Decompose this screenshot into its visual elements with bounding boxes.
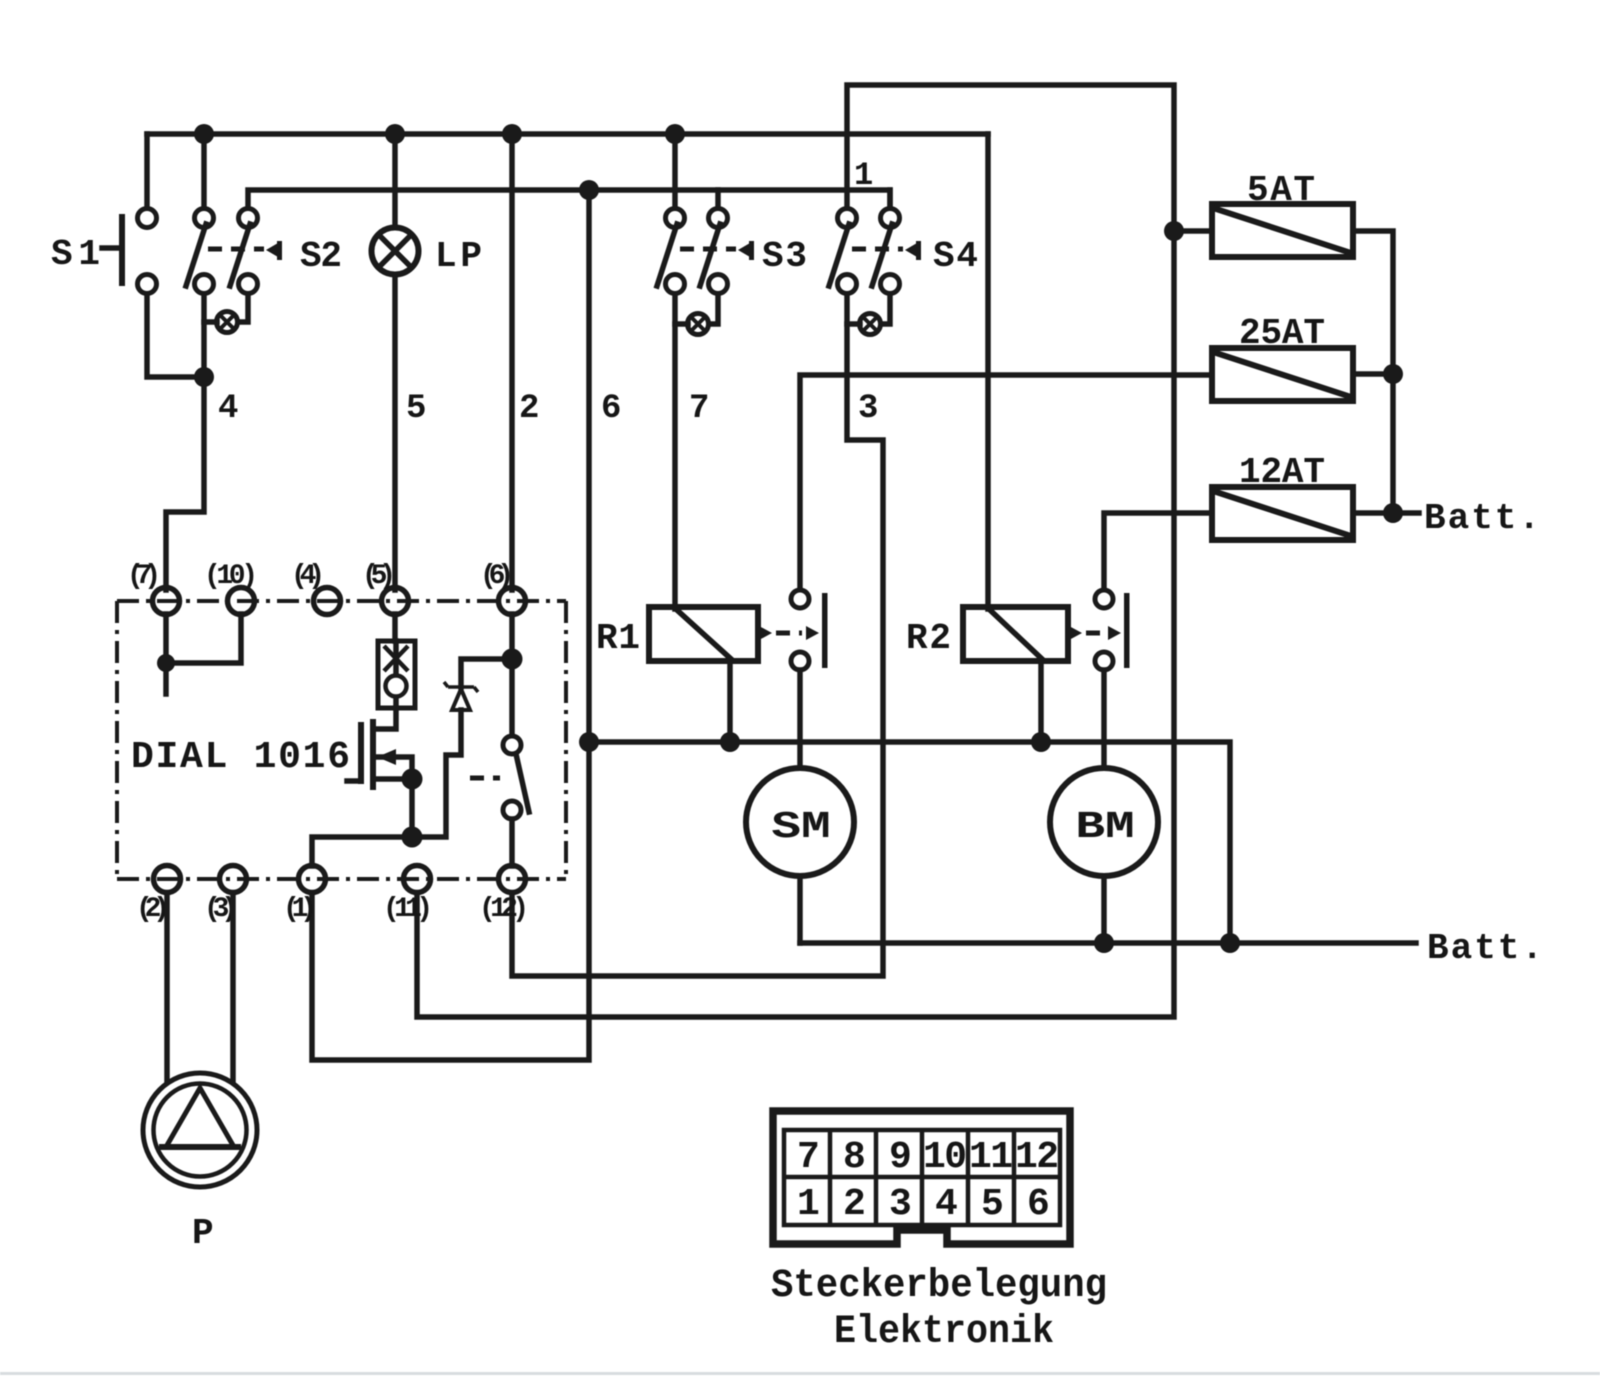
svg-text:12: 12 xyxy=(1015,1136,1059,1179)
switch S3 xyxy=(657,209,754,294)
svg-text:R1: R1 xyxy=(596,618,640,659)
svg-text:5AT: 5AT xyxy=(1247,170,1315,211)
svg-text:S3: S3 xyxy=(762,236,807,277)
fuse 25AT xyxy=(1212,348,1353,401)
junction top rail / S3 left xyxy=(665,124,685,144)
svg-text:5: 5 xyxy=(406,390,426,428)
fuse 5AT xyxy=(1212,204,1353,257)
wire 1 (S4 left top, over top box to fuse bus) xyxy=(417,85,1174,1017)
rail 4 (common return) xyxy=(583,742,1230,943)
wire R2 coil bottom to rail 4 xyxy=(1038,661,1044,742)
junction 25AT / fuse bus xyxy=(1383,364,1403,384)
relay R2 contact xyxy=(1069,590,1130,670)
svg-text:11: 11 xyxy=(969,1136,1013,1179)
wire Q1 source down to node C xyxy=(409,779,415,837)
pin (1) xyxy=(299,866,326,893)
junction top rail / lamp LP xyxy=(385,124,405,144)
svg-text:SM: SM xyxy=(771,806,830,849)
pin (6) xyxy=(499,588,526,615)
rail 3 (R1 contact feed to fuse 25AT) xyxy=(800,375,1212,590)
svg-text:4: 4 xyxy=(218,390,238,428)
wire pin10 internal to node B xyxy=(166,614,241,663)
svg-text:S4: S4 xyxy=(933,236,978,277)
junction Batt. feed xyxy=(1383,503,1403,523)
svg-text:3: 3 xyxy=(889,1183,912,1226)
pin (12) xyxy=(499,866,526,893)
wire S2 left pole top lead xyxy=(201,134,207,209)
wire S1 top lead xyxy=(144,134,150,209)
svg-text:(5): (5) xyxy=(362,561,396,592)
wire pin (2) to pump xyxy=(164,893,170,1084)
junction node B (pin7/pin10) xyxy=(157,654,175,672)
wire S2 right bottom to lamp socket xyxy=(238,294,248,322)
junction node C xyxy=(402,827,423,848)
svg-text:P: P xyxy=(192,1213,214,1254)
pin (7) xyxy=(153,588,180,615)
rail 5 Batt bottom xyxy=(800,940,1416,946)
wire fuse 25AT right lead xyxy=(1353,371,1393,377)
junction wire1 / 5AT xyxy=(1164,221,1184,241)
wire S1 bottom to node A xyxy=(147,294,204,377)
svg-text:5: 5 xyxy=(981,1183,1004,1226)
lamp socket symbol under S4 xyxy=(847,314,881,335)
junction BM / Batt rail xyxy=(1094,933,1114,953)
pushbutton S1 xyxy=(102,209,157,294)
scan artifact line xyxy=(0,1372,1600,1375)
wire main top rail (node K1) xyxy=(147,131,988,137)
wire internal switch to pin (12) xyxy=(509,819,515,866)
connector pin grid xyxy=(784,1130,1060,1225)
svg-text:Batt.: Batt. xyxy=(1424,498,1540,539)
wire S3 right bottom to lamp socket xyxy=(709,294,718,324)
svg-text:(1): (1) xyxy=(283,894,317,925)
junction R1 coil / rail 4 xyxy=(720,732,740,752)
junction rail4 drop / Batt rail xyxy=(1220,933,1240,953)
DIAL 1016 module outline (dash-dot box) xyxy=(117,601,566,879)
thermal element F1 xyxy=(378,641,415,708)
pin (4) xyxy=(314,588,341,615)
relay R2 coil xyxy=(963,607,1068,661)
wire LP top lead xyxy=(392,134,398,228)
pin (3) xyxy=(220,866,247,893)
svg-text:6: 6 xyxy=(1027,1183,1050,1226)
wire thermal element to MOSFET drain xyxy=(377,708,396,729)
wire R2 coil feed (top rail corner down) xyxy=(985,134,991,609)
wire S3 right pole top lead xyxy=(715,190,721,209)
pin (2) xyxy=(154,866,181,893)
svg-text:BM: BM xyxy=(1075,806,1134,849)
svg-text:8: 8 xyxy=(843,1136,866,1179)
lamp LP xyxy=(372,228,419,275)
junction top rail / S2 left xyxy=(194,124,214,144)
transistor Q1 (MOSFET) xyxy=(347,719,412,790)
svg-text:Steckerbelegung: Steckerbelegung xyxy=(771,1264,1107,1309)
svg-text:2: 2 xyxy=(519,390,539,428)
relay R1 coil xyxy=(649,607,758,661)
fuse 12AT xyxy=(1212,487,1353,540)
pin (11) xyxy=(404,866,431,893)
wire fuse 5AT left lead xyxy=(1174,228,1212,234)
svg-text:6: 6 xyxy=(601,390,621,428)
svg-text:1: 1 xyxy=(797,1183,820,1226)
wire pin7 internal stub xyxy=(163,614,169,694)
wire R1 coil bottom to rail 4 xyxy=(727,661,733,742)
wire S3 left pole top lead xyxy=(672,134,678,209)
svg-text:(12): (12) xyxy=(479,894,529,925)
wire pin5 to thermal element xyxy=(392,614,398,641)
wire BM bottom to Batt rail xyxy=(1101,876,1107,943)
junction R2 coil / rail 4 xyxy=(1031,732,1051,752)
svg-text:(4): (4) xyxy=(291,561,325,592)
wire rail 2 / S2 right pole top lead xyxy=(248,190,890,209)
relay R1 contact xyxy=(759,590,828,670)
svg-text:3: 3 xyxy=(858,390,878,428)
lamp socket symbol under S3 xyxy=(675,314,709,335)
wire S4 right pole top lead xyxy=(887,190,893,209)
svg-text:4: 4 xyxy=(935,1183,958,1226)
junction rail2 / wire 6 xyxy=(579,180,599,200)
wire fuse 12AT left lead to relay R2 contact xyxy=(1104,513,1212,590)
internal switch K xyxy=(470,736,529,819)
junction node D (pin6 branch) xyxy=(502,649,523,670)
wire fuse 12AT right lead xyxy=(1353,510,1393,516)
wire 6 (rail2 down, to pin (1) via bottom run) xyxy=(312,190,589,1060)
svg-text:1: 1 xyxy=(854,157,873,194)
wire 2 (top rail to pin (6)) xyxy=(509,134,515,590)
junction Q1 source node xyxy=(402,769,423,790)
wire S2 left bottom (wire 4 upper) xyxy=(201,294,207,377)
svg-text:Elektronik: Elektronik xyxy=(834,1310,1054,1355)
junction top rail / wire 2 xyxy=(502,124,522,144)
svg-text:(11): (11) xyxy=(383,894,433,925)
wire 3 (S4 left bottom, to pin (12) via bottom run) xyxy=(512,294,883,976)
wire 4 lower run to pin (7) xyxy=(166,377,204,590)
motor SM xyxy=(746,768,854,876)
motor BM xyxy=(1050,768,1158,876)
svg-text:7: 7 xyxy=(689,390,709,428)
svg-text:2: 2 xyxy=(843,1183,866,1226)
wire node C to pin (1) xyxy=(312,837,412,866)
junction node A (S1/wire4) xyxy=(194,367,214,387)
svg-text:S2: S2 xyxy=(300,236,342,277)
wire diode top to node D xyxy=(461,659,512,687)
wire Batt. stub xyxy=(1393,510,1419,516)
pin (5) xyxy=(382,588,409,615)
wire fuse bus right (5AT to Batt node) xyxy=(1353,231,1393,513)
pump P xyxy=(143,1073,257,1187)
switch S4 xyxy=(829,209,921,294)
wire S4 right bottom to lamp socket xyxy=(881,294,890,324)
pin (10) xyxy=(228,588,255,615)
svg-text:DIAL 1016: DIAL 1016 xyxy=(131,736,350,779)
svg-text:Batt.: Batt. xyxy=(1427,928,1543,969)
wire node C to diode branch xyxy=(412,710,461,837)
wire pin6 down to internal switch xyxy=(509,614,515,736)
wire R2 contact to motor BM xyxy=(1101,670,1107,769)
wire 7 (S3 left bottom to relay R1 coil) xyxy=(672,294,678,609)
connector housing (Steckerbelegung) xyxy=(773,1111,1070,1244)
lamp socket symbol under S2 xyxy=(204,312,238,333)
svg-text:9: 9 xyxy=(889,1136,912,1179)
svg-text:7: 7 xyxy=(797,1136,820,1179)
svg-text:12AT: 12AT xyxy=(1239,452,1325,493)
wire SM bottom to Batt rail xyxy=(797,876,803,943)
junction wire6 / rail 4 xyxy=(579,732,599,752)
svg-text:10: 10 xyxy=(923,1136,967,1179)
svg-text:(6): (6) xyxy=(480,561,514,592)
diode D1 (zener) xyxy=(444,682,478,710)
svg-text:(10): (10) xyxy=(204,561,258,592)
wire R1 contact to motor SM xyxy=(797,670,803,769)
svg-text:25AT: 25AT xyxy=(1239,313,1325,354)
switch S2 xyxy=(186,209,282,294)
wire pin (3) to pump xyxy=(230,893,236,1084)
svg-text:(7): (7) xyxy=(127,561,161,592)
wire 5 (LP to pin (5)) xyxy=(392,275,398,590)
svg-text:R2: R2 xyxy=(906,618,951,659)
